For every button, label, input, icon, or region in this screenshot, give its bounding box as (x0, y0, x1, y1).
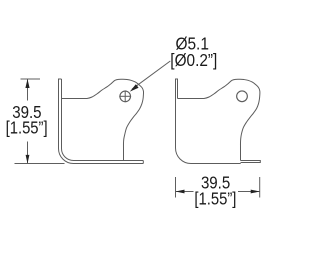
left flange inner edge + inner bend arc + bottom flange top line (62, 79, 144, 161)
main face outline (wavy profile) (62, 79, 144, 160)
bottom extension line (15, 163, 65, 165)
dim line right segment (238, 191, 260, 193)
hole circle (plain) (237, 91, 248, 102)
leader line (132, 61, 170, 89)
flange top end cap (58, 78, 62, 80)
left edge + single bend arc + bottom edge line (176, 79, 241, 164)
main face outline (wavy profile) (178, 79, 260, 160)
right arrow (251, 190, 260, 194)
dim line left segment (176, 191, 194, 193)
bottom flange right end cap (142, 161, 144, 164)
dim line lower segment (27, 142, 29, 164)
hole crosshair (119, 90, 131, 102)
flange top end cap (175, 78, 178, 80)
up arrow (25, 79, 29, 88)
flange edge inner line (177, 79, 179, 99)
left flange outer edge + outer bend arc + bottom flange bottom line (59, 79, 144, 164)
svg-text:[1.55”]: [1.55”] (6, 118, 48, 138)
svg-text:[1.55”]: [1.55”] (194, 188, 236, 208)
left extension line (175, 177, 177, 198)
right extension line (259, 177, 261, 198)
top extension line (21, 78, 41, 80)
bottom right flange strip with end cap (241, 161, 261, 163)
left arrow (176, 190, 185, 194)
hole circle (120, 91, 131, 102)
leader arrowhead (130, 84, 139, 91)
dim line upper segment (27, 79, 29, 101)
svg-text:[Ø0.2”]: [Ø0.2”] (170, 50, 217, 70)
down arrow (26, 155, 30, 164)
